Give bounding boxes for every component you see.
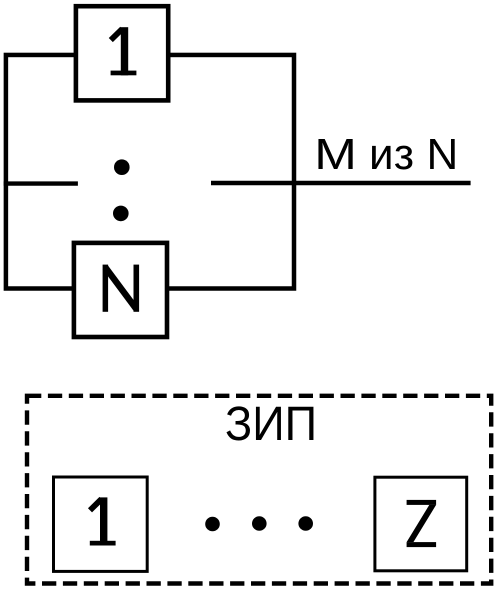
block Z (spares group) [375,477,467,571]
node dots vertical ellipsis [114,159,130,175]
block N (top group) [74,243,167,337]
block 1 (spares group) [54,477,148,571]
wire parallel-loop [6,55,294,289]
wire M-out-of-N output [211,181,471,185]
ZIP dashed enclosure [27,396,491,584]
wire middle-left stub [4,181,78,185]
block 1 (top group) [76,6,168,100]
svg-text:ЗИП: ЗИП [225,398,317,451]
svg-text:изN: изN [369,130,458,179]
svg-text:М: М [314,130,357,179]
node dots horizontal ellipsis [205,517,220,532]
